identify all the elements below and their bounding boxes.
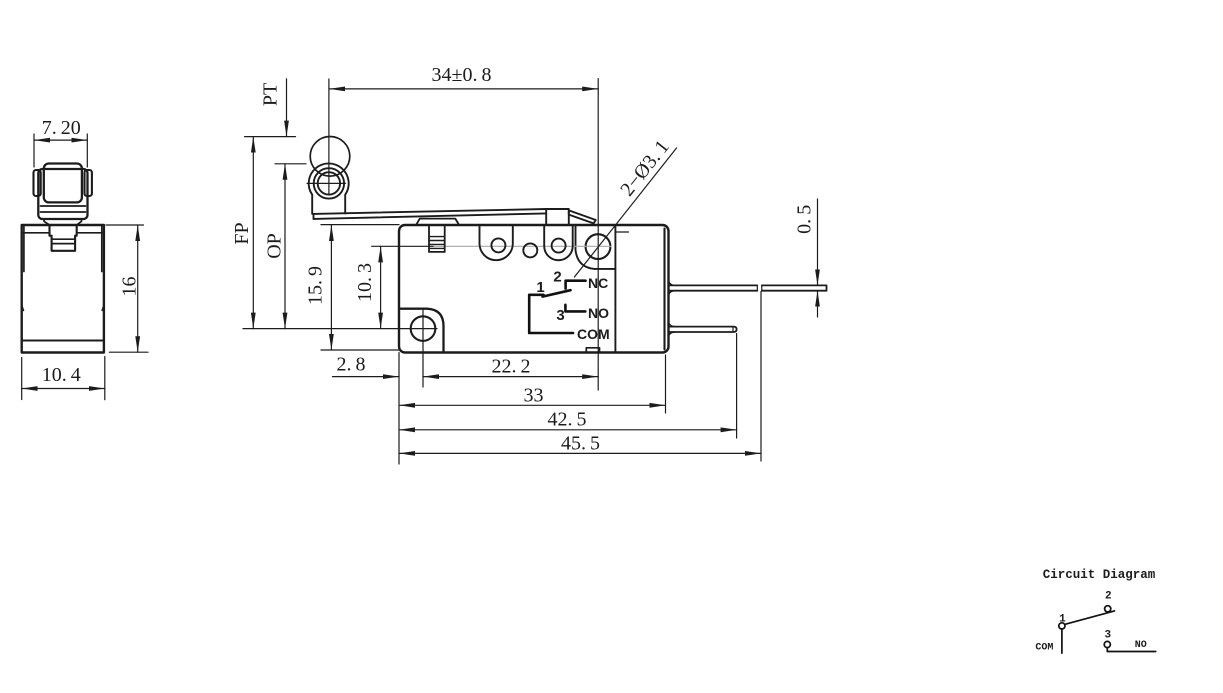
dim 10.4 line <box>22 388 105 390</box>
contact blade 1 <box>543 290 571 296</box>
body right inner edge <box>663 229 665 350</box>
hinge pin centerline dark part <box>372 245 434 247</box>
svg-text:3: 3 <box>1104 630 1111 642</box>
svg-text:2. 8: 2. 8 <box>336 354 365 376</box>
roller hub <box>318 172 340 194</box>
circuit contact 3 <box>1104 641 1110 647</box>
left ext for bottom dims <box>398 353 400 465</box>
plunger cap <box>416 219 459 225</box>
latch line 2 <box>52 243 76 245</box>
seam top step <box>615 231 628 233</box>
dim 0.5 upper arrow <box>817 199 819 285</box>
svg-text:1: 1 <box>536 279 544 296</box>
svg-text:10. 4: 10. 4 <box>42 364 81 386</box>
contact pole bracket <box>529 295 573 333</box>
dim 33 right ext <box>665 355 667 413</box>
svg-text:2−Ø3. 1: 2−Ø3. 1 <box>616 136 674 200</box>
seam ledge <box>595 268 616 270</box>
svg-text:10. 3: 10. 3 <box>354 263 376 302</box>
NC contact <box>566 281 586 289</box>
roller wheel (front) <box>44 164 82 203</box>
dim 22.2 line <box>423 376 598 378</box>
circuit blade <box>1065 611 1115 624</box>
svg-text:45. 5: 45. 5 <box>561 433 600 455</box>
svg-text:16: 16 <box>119 277 141 297</box>
svg-text:42. 5: 42. 5 <box>547 409 586 431</box>
lug hole 2 <box>552 239 566 253</box>
dim 7.20 line <box>34 139 87 141</box>
bottom-left boss <box>399 309 444 352</box>
lug hole 1 <box>491 238 505 252</box>
roller axle tab right <box>85 170 92 196</box>
svg-text:OP: OP <box>264 233 286 259</box>
NO contact <box>565 305 585 312</box>
dim 45.5 line <box>399 452 761 454</box>
lever clip <box>546 209 569 225</box>
body top band left <box>23 232 49 234</box>
circuit contact 1 <box>1059 623 1065 629</box>
dim 34 line <box>329 88 598 90</box>
lever tip left <box>313 214 315 219</box>
dim 2.8 line <box>333 376 400 378</box>
svg-text:0. 5: 0. 5 <box>794 205 816 234</box>
body bottom band <box>23 339 103 341</box>
dim 15.9 line <box>330 225 332 350</box>
svg-text:34±0. 8: 34±0. 8 <box>432 64 492 86</box>
switch body (side view) <box>22 225 104 353</box>
bracket fold line 1 <box>41 205 86 207</box>
latch pocket <box>50 226 77 251</box>
mounting hole top-right <box>586 234 611 259</box>
hole boss arc <box>576 226 595 269</box>
pin circle <box>523 243 537 257</box>
svg-text:FP: FP <box>231 222 253 244</box>
dim OP line <box>284 164 286 329</box>
body top band right <box>77 232 103 234</box>
case seam <box>614 226 616 352</box>
dim 15.9 bottom ext <box>321 349 399 351</box>
svg-text:2: 2 <box>1105 591 1112 603</box>
circuit contact 2 <box>1105 606 1111 612</box>
dim 42.5 line <box>399 429 737 431</box>
dim FP line <box>252 137 254 329</box>
dim 15.9 top ext <box>321 224 399 226</box>
terminal NC fillets <box>669 281 676 295</box>
latch line 1 <box>52 238 76 240</box>
hinge lug 1 <box>480 226 513 261</box>
circuit COM lead <box>1061 629 1063 653</box>
terminal COM fillets <box>669 323 676 337</box>
lever tip band <box>569 210 596 223</box>
dim 7.20 ext left <box>33 134 35 167</box>
switch body (main) <box>399 225 669 353</box>
svg-text:COM: COM <box>577 326 610 342</box>
plunger spring lines <box>429 237 445 249</box>
datum A free position <box>245 136 296 138</box>
edge jog right <box>102 306 104 311</box>
dim 10.3 line <box>380 246 382 328</box>
hole BL vertical centerline <box>422 310 424 387</box>
bracket fold line 2 <box>41 211 86 213</box>
inner edge line left <box>23 226 25 272</box>
lever blade bottom <box>314 213 547 219</box>
bottom notch <box>586 348 599 353</box>
svg-text:COM: COM <box>1035 643 1053 654</box>
stem shoulder right <box>77 219 82 225</box>
datum B operating position <box>275 163 306 165</box>
dim PT line <box>286 79 288 137</box>
roller wheel <box>314 168 344 198</box>
dim 16 line <box>137 225 139 352</box>
dim 42.5 right ext <box>736 334 738 439</box>
dim 7.20 ext right <box>86 134 88 167</box>
terminal break ticks <box>757 285 762 290</box>
svg-text:Circuit Diagram: Circuit Diagram <box>1043 568 1156 582</box>
dim 45.5 right ext <box>760 292 762 462</box>
terminal NC (long) <box>669 285 827 290</box>
terminal COM tick <box>732 327 734 332</box>
svg-text:15. 9: 15. 9 <box>305 266 327 305</box>
mounting hole bottom-left <box>411 316 436 341</box>
roller centerline vertical + dim ext <box>328 79 330 195</box>
inner edge line right <box>101 226 103 272</box>
svg-text:22. 2: 22. 2 <box>491 356 530 378</box>
edge jog left <box>22 306 24 311</box>
svg-text:NO: NO <box>1135 640 1147 651</box>
svg-text:2: 2 <box>553 269 561 286</box>
svg-text:NC: NC <box>588 275 608 291</box>
svg-text:33: 33 <box>524 385 544 407</box>
dim 10.4 ext right <box>104 357 106 400</box>
svg-text:3: 3 <box>556 307 564 324</box>
roller bracket (main) <box>309 163 349 214</box>
lever blade top <box>314 209 547 214</box>
roller crosshair horizontal <box>307 182 346 184</box>
leader 2-phi3.1 <box>574 148 676 277</box>
dim 16 ext top <box>106 224 144 226</box>
dim 10.4 ext left <box>21 358 23 400</box>
stem shoulder left <box>44 219 50 225</box>
hole TR vertical centerline + dim ext <box>597 79 599 390</box>
lever bracket (front) <box>38 169 87 219</box>
terminal COM (short) <box>669 327 737 332</box>
svg-text:NO: NO <box>588 305 609 321</box>
hinge lug 2 <box>544 226 573 261</box>
free position roller (phantom) <box>310 137 350 177</box>
plunger stem <box>429 225 445 252</box>
roller axle tab left <box>34 170 41 196</box>
hinge pin centerline gray part <box>434 245 611 247</box>
svg-text:PT: PT <box>260 83 282 106</box>
dim 0.5 lower arrow <box>817 291 819 317</box>
dim 16 ext bottom <box>109 351 148 353</box>
datum line C / hole crosshair <box>243 328 437 330</box>
dim 33 line <box>399 404 666 406</box>
circuit NO lead <box>1107 648 1155 652</box>
svg-text:7. 20: 7. 20 <box>42 117 81 139</box>
